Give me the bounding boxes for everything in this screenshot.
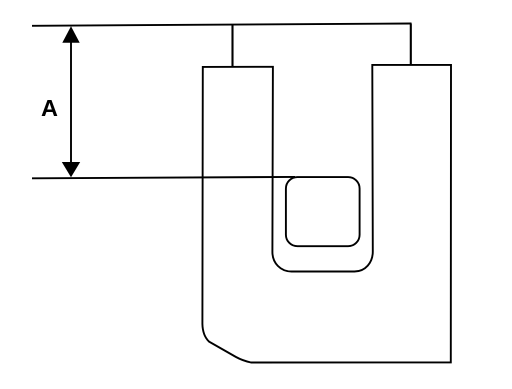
dimension arrowhead down (62, 162, 80, 177)
dimension arrowhead up (62, 26, 79, 43)
part outline (U-shaped body) (202, 65, 451, 363)
top reference line (32, 24, 412, 26)
svg-text:A: A (41, 95, 58, 121)
dimension line A shaft (70, 38, 72, 166)
lower reference line (32, 177, 295, 178)
leader from top line to left tab (231, 25, 233, 68)
inner slot (rounded rectangle) (286, 177, 360, 246)
leader from top line to right tab (410, 24, 412, 66)
